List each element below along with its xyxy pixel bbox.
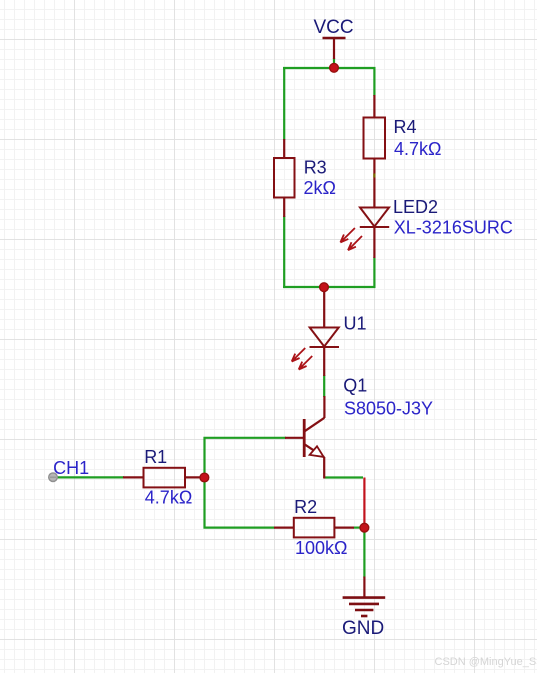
svg-text:S8050-J3Y: S8050-J3Y — [344, 399, 433, 419]
svg-text:2kΩ: 2kΩ — [304, 178, 336, 198]
svg-text:100kΩ: 100kΩ — [295, 538, 348, 558]
svg-text:CH1: CH1 — [53, 458, 89, 478]
svg-text:Q1: Q1 — [343, 376, 367, 396]
svg-text:R3: R3 — [304, 158, 327, 178]
svg-text:R4: R4 — [394, 117, 417, 137]
svg-text:GND: GND — [342, 618, 384, 639]
svg-text:R1: R1 — [144, 447, 167, 467]
svg-text:XL-3216SURC: XL-3216SURC — [394, 218, 513, 238]
svg-text:4.7kΩ: 4.7kΩ — [145, 488, 192, 508]
svg-text:LED2: LED2 — [393, 197, 438, 217]
svg-text:CSDN @MingYue_SSS: CSDN @MingYue_SSS — [435, 656, 537, 668]
svg-text:U1: U1 — [344, 314, 367, 334]
svg-text:VCC: VCC — [314, 17, 354, 38]
svg-text:R2: R2 — [294, 497, 317, 517]
svg-text:4.7kΩ: 4.7kΩ — [394, 139, 441, 159]
